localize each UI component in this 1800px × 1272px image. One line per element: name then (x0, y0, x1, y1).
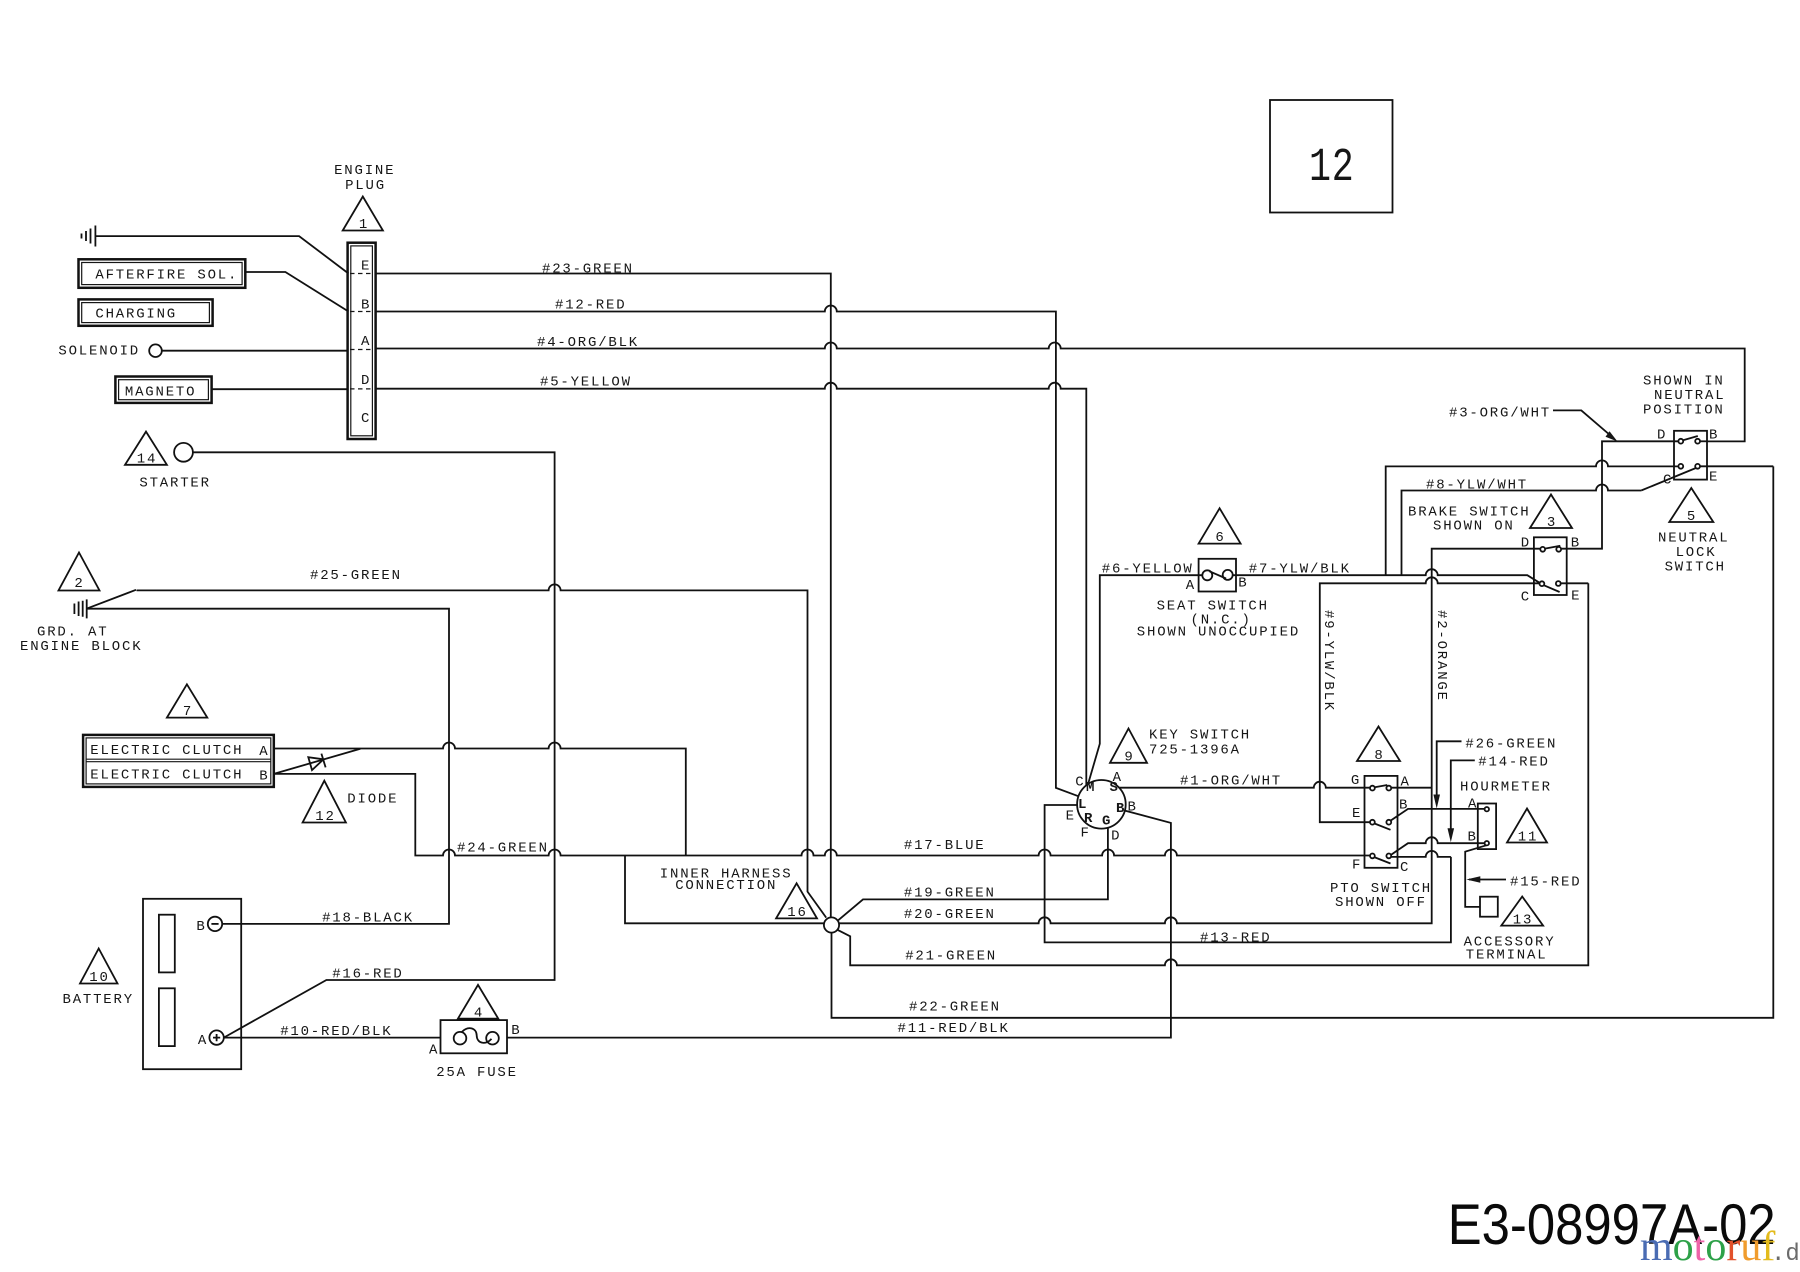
svg-text:#18-BLACK: #18-BLACK (322, 911, 414, 927)
svg-text:SHOWN OFF: SHOWN OFF (1335, 895, 1427, 911)
svg-text:CHARGING: CHARGING (95, 307, 177, 323)
svg-text:R: R (1084, 811, 1094, 827)
svg-text:F: F (1352, 858, 1362, 874)
svg-text:C: C (1521, 590, 1531, 606)
svg-text:#11-RED/BLK: #11-RED/BLK (898, 1021, 1010, 1037)
svg-text:#26-GREEN: #26-GREEN (1465, 737, 1557, 753)
svg-text:#16-RED: #16-RED (332, 967, 403, 983)
svg-text:#7-YLW/BLK: #7-YLW/BLK (1249, 562, 1351, 578)
svg-text:#4-ORG/BLK: #4-ORG/BLK (537, 335, 639, 351)
svg-text:725-1396A: 725-1396A (1149, 743, 1241, 759)
svg-text:.de: .de (1771, 1241, 1800, 1268)
svg-text:ENGINE: ENGINE (334, 163, 395, 179)
svg-text:BATTERY: BATTERY (63, 992, 134, 1008)
svg-text:ELECTRIC CLUTCH: ELECTRIC CLUTCH (90, 743, 243, 759)
svg-text:#23-GREEN: #23-GREEN (542, 262, 634, 278)
svg-text:ELECTRIC CLUTCH: ELECTRIC CLUTCH (90, 768, 243, 784)
svg-text:#25-GREEN: #25-GREEN (310, 568, 402, 584)
svg-text:12: 12 (315, 809, 335, 825)
svg-text:B: B (1571, 536, 1581, 552)
svg-text:C: C (1663, 473, 1673, 489)
svg-text:D: D (361, 373, 371, 389)
svg-text:G: G (1351, 773, 1361, 789)
svg-text:B: B (196, 919, 206, 935)
svg-text:STARTER: STARTER (139, 476, 210, 492)
svg-text:B: B (1399, 798, 1409, 814)
svg-text:#15-RED: #15-RED (1510, 875, 1581, 891)
svg-text:#20-GREEN: #20-GREEN (904, 907, 996, 923)
svg-text:10: 10 (89, 970, 109, 986)
svg-text:S: S (1110, 780, 1120, 796)
svg-text:#10-RED/BLK: #10-RED/BLK (280, 1024, 392, 1040)
svg-text:SOLENOID: SOLENOID (58, 344, 140, 360)
svg-text:16: 16 (787, 905, 807, 921)
svg-text:A: A (1401, 775, 1411, 791)
svg-text:E: E (1352, 806, 1362, 822)
svg-text:#21-GREEN: #21-GREEN (905, 949, 997, 965)
svg-text:F: F (1081, 826, 1091, 842)
svg-text:#6-YELLOW: #6-YELLOW (1102, 562, 1194, 578)
svg-text:B: B (1128, 800, 1138, 816)
svg-text:D: D (1657, 428, 1667, 444)
svg-text:13: 13 (1513, 913, 1533, 929)
svg-text:M: M (1086, 780, 1096, 796)
svg-text:B: B (1709, 428, 1719, 444)
svg-text:#14-RED: #14-RED (1478, 755, 1549, 771)
svg-text:CONNECTION: CONNECTION (675, 878, 777, 894)
svg-text:4: 4 (474, 1006, 484, 1022)
svg-text:SHOWN ON: SHOWN ON (1433, 519, 1515, 535)
svg-text:8: 8 (1374, 748, 1384, 764)
svg-text:A: A (259, 744, 269, 760)
svg-text:#8-YLW/WHT: #8-YLW/WHT (1426, 478, 1528, 494)
svg-text:#1-ORG/WHT: #1-ORG/WHT (1180, 774, 1282, 790)
svg-text:A: A (429, 1043, 439, 1059)
svg-text:E: E (1066, 809, 1076, 825)
svg-text:5: 5 (1687, 509, 1697, 525)
svg-text:#24-GREEN: #24-GREEN (457, 841, 549, 857)
svg-text:D: D (1111, 829, 1121, 845)
svg-text:#2-ORANGE: #2-ORANGE (1433, 610, 1449, 702)
svg-text:TERMINAL: TERMINAL (1466, 948, 1548, 964)
svg-text:A: A (1468, 797, 1478, 813)
svg-text:PLUG: PLUG (345, 178, 386, 194)
svg-text:#3-ORG/WHT: #3-ORG/WHT (1449, 406, 1551, 422)
svg-text:2: 2 (74, 576, 84, 592)
svg-text:HOURMETER: HOURMETER (1460, 780, 1552, 796)
svg-text:D: D (1521, 536, 1531, 552)
svg-text:motoruf: motoruf (1640, 1224, 1775, 1270)
svg-text:6: 6 (1215, 530, 1225, 546)
svg-text:#12-RED: #12-RED (555, 298, 626, 314)
svg-text:KEY SWITCH: KEY SWITCH (1149, 728, 1251, 744)
svg-text:G: G (1102, 814, 1112, 830)
svg-text:POSITION: POSITION (1643, 403, 1725, 419)
svg-text:B: B (1116, 801, 1126, 817)
svg-text:1: 1 (359, 217, 369, 233)
svg-text:SWITCH: SWITCH (1665, 560, 1726, 576)
svg-text:E: E (361, 259, 371, 275)
svg-text:E: E (1709, 470, 1719, 486)
svg-text:DIODE: DIODE (347, 792, 398, 808)
svg-text:B: B (361, 298, 371, 314)
svg-text:#17-BLUE: #17-BLUE (904, 838, 986, 854)
svg-text:#9-YLW/BLK: #9-YLW/BLK (1320, 610, 1336, 712)
svg-text:C: C (361, 411, 371, 427)
svg-text:7: 7 (183, 704, 193, 720)
svg-text:3: 3 (1547, 515, 1557, 531)
svg-text:14: 14 (137, 452, 157, 468)
svg-text:9: 9 (1124, 750, 1134, 766)
svg-text:A: A (1186, 578, 1196, 594)
svg-text:#19-GREEN: #19-GREEN (904, 886, 996, 902)
svg-text:B: B (511, 1023, 521, 1039)
svg-text:C: C (1400, 860, 1410, 876)
svg-text:A: A (198, 1033, 208, 1049)
svg-text:11: 11 (1518, 830, 1538, 846)
svg-text:MAGNETO: MAGNETO (125, 385, 196, 401)
svg-text:A: A (361, 334, 371, 350)
svg-text:12: 12 (1309, 141, 1355, 195)
svg-text:SHOWN UNOCCUPIED: SHOWN UNOCCUPIED (1137, 625, 1300, 641)
svg-text:E: E (1571, 589, 1581, 605)
svg-text:25A FUSE: 25A FUSE (436, 1065, 518, 1081)
svg-text:B: B (1468, 830, 1478, 846)
svg-text:AFTERFIRE SOL.: AFTERFIRE SOL. (95, 268, 238, 284)
svg-text:B: B (259, 769, 269, 785)
svg-text:C: C (1075, 775, 1085, 791)
svg-text:#13-RED: #13-RED (1200, 931, 1271, 947)
svg-text:#5-YELLOW: #5-YELLOW (540, 375, 632, 391)
svg-text:ENGINE BLOCK: ENGINE BLOCK (20, 639, 142, 655)
svg-text:#22-GREEN: #22-GREEN (909, 1000, 1001, 1016)
svg-text:B: B (1238, 576, 1248, 592)
